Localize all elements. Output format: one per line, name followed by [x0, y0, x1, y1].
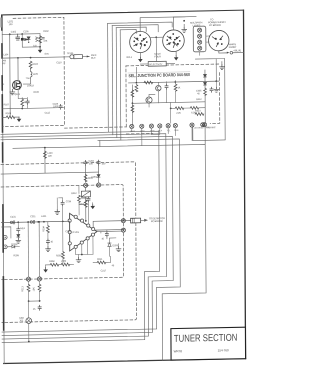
- dashed box FM front end (top-left): [2, 17, 64, 126]
- ground under C212: [47, 244, 49, 247]
- wire top link: [140, 17, 196, 32]
- wire staircase A: [1, 131, 160, 342]
- antenna coil stub at left edge: [0, 17, 2, 27]
- svg-text:WHT/RED: WHT/RED: [194, 127, 204, 129]
- ground under diode: [17, 237, 19, 238]
- svg-text:IC 201: IC 201: [72, 231, 79, 234]
- resistor R105: [21, 99, 24, 106]
- dashed box MPX outer (B): [1, 162, 136, 323]
- connector circle bottom 1: [26, 277, 30, 281]
- ground above IC: [92, 203, 94, 205]
- svg-text:2SK19: 2SK19: [27, 84, 34, 87]
- svg-text:C105: C105: [23, 30, 29, 33]
- svg-text:D201: D201: [92, 176, 98, 179]
- SELECTIVITY label box: [148, 61, 166, 66]
- wire R103: [3, 116, 19, 118]
- resistor L203: [44, 151, 47, 158]
- ground after R103: [17, 117, 22, 122]
- svg-text:6.2K: 6.2K: [191, 111, 196, 114]
- wire mid horizontal inside B: [1, 172, 99, 174]
- wire output 2 to xcirc: [97, 231, 122, 233]
- dashed box SEL junction top edge: [126, 64, 220, 66]
- wire vertical to bottom connector 1: [27, 222, 29, 277]
- connector row circle 2: [140, 124, 144, 128]
- svg-text:R208: R208: [49, 260, 55, 263]
- svg-text:GRN: GRN: [150, 130, 155, 132]
- svg-text:10K: 10K: [33, 287, 36, 292]
- wire SEL inner row: [129, 81, 220, 83]
- node dot: [183, 20, 185, 22]
- wire joining: [29, 300, 40, 302]
- diode D204 down: [17, 234, 20, 237]
- svg-text:C231: C231: [10, 215, 16, 218]
- capacitor C215 on output: [105, 232, 108, 237]
- svg-text:PC BOARD: PC BOARD: [151, 220, 163, 223]
- wire upper inside A: [78, 185, 80, 193]
- svg-text:2.2M: 2.2M: [61, 260, 66, 263]
- wire R204 down: [47, 222, 49, 240]
- capacitor C218: [38, 305, 41, 310]
- wire C216: [59, 198, 63, 222]
- ground left of C216: [55, 209, 60, 214]
- connector row circle 7: [190, 123, 194, 127]
- wire IC output right: [95, 229, 122, 232]
- connector labels row: [130, 127, 210, 133]
- resistor R104 vertical: [29, 61, 32, 68]
- svg-text:M13: M13: [20, 227, 25, 230]
- svg-text:R211: R211: [97, 258, 103, 261]
- resistor R202: [84, 200, 87, 207]
- wire bundle top 1: [108, 22, 173, 28]
- wire drops from connector row: [132, 128, 176, 146]
- resistor R412: [204, 88, 207, 95]
- title block box: [171, 327, 246, 360]
- wire bundle vertical 3: [115, 28, 118, 138]
- main wire left y222.6: [1, 221, 69, 222]
- wire jack row: [7, 246, 19, 248]
- svg-text:R213: R213: [21, 285, 24, 291]
- left edge connector jack J201: [3, 235, 7, 239]
- capacitor C402: [165, 84, 168, 89]
- zener D203: [108, 243, 111, 247]
- node dot: [39, 46, 41, 48]
- resistor R101 chevrons: [36, 37, 38, 42]
- diode D102 down: [27, 37, 30, 40]
- connector circle AM ANT: [202, 123, 206, 127]
- sheet border top: [2, 10, 244, 15]
- diode D402: [204, 82, 207, 85]
- capacitor C209 chain: [17, 227, 20, 232]
- transistor Q401: [146, 97, 152, 103]
- svg-text:R102: R102: [43, 30, 49, 33]
- coil L105: [31, 68, 32, 78]
- wire bundle top 4: [120, 29, 136, 33]
- dashed box IF-MPX inner (A): [1, 185, 124, 280]
- wire under-row collector: [132, 131, 160, 135]
- wire staircase B: [1, 134, 167, 339]
- wire bundle vertical 2: [111, 26, 114, 135]
- IC pin 10 left mid: [68, 231, 71, 234]
- transistor Q101 FET: [12, 81, 21, 90]
- svg-text:WR78: WR78: [174, 349, 183, 353]
- node dot: [21, 33, 23, 35]
- rotary switch S2: [163, 30, 185, 52]
- gnd drop right: [215, 81, 217, 87]
- wire gate to FET: [23, 78, 30, 84]
- svg-text:2.2K: 2.2K: [176, 112, 181, 115]
- svg-text:L104: L104: [3, 53, 9, 56]
- svg-text:RED: RED: [140, 131, 145, 133]
- solid box around SEL right: [192, 59, 225, 141]
- main wire y58: [2, 57, 64, 58]
- svg-text:S.5v: S.5v: [44, 53, 49, 56]
- IC pin 6: [86, 237, 89, 240]
- svg-text:45: 45: [33, 308, 36, 311]
- wire LED down to bus: [28, 323, 30, 341]
- wire IC pins bottom bus: [76, 253, 93, 255]
- svg-text:154-760: 154-760: [218, 348, 229, 352]
- trimmer capacitor C101: [16, 34, 20, 40]
- wire link drop to selectivity: [155, 37, 157, 61]
- wire C215: [106, 230, 108, 239]
- dashed box IF section (top-left 2) bottom edge: [65, 127, 127, 128]
- lamp box: [193, 26, 206, 52]
- connector row circle 8: [201, 123, 205, 127]
- SEL left components: resistor: [131, 105, 134, 112]
- svg-text:R412: R412: [196, 98, 202, 101]
- sheet border bottom: [4, 359, 246, 364]
- rotary S2 contact dots: [166, 33, 180, 45]
- capacitor C216 top: [61, 201, 64, 206]
- svg-text:ORG: ORG: [174, 130, 179, 132]
- wire SEL connector down leg: [204, 127, 206, 145]
- jack box: [1, 227, 11, 238]
- svg-text:R204: R204: [42, 226, 45, 232]
- svg-text:45: 45: [197, 92, 200, 95]
- wire below circle: [85, 187, 87, 221]
- node dot: [28, 42, 29, 43]
- resistor R103 horizontal: [6, 116, 15, 119]
- svg-text:C211: C211: [30, 215, 36, 218]
- resistor R209 horizontal: [61, 263, 70, 266]
- filter block FL201: [81, 191, 90, 197]
- connector circle bottom 2: [37, 277, 41, 281]
- node dot: [155, 36, 157, 38]
- svg-text:1K: 1K: [178, 86, 181, 89]
- svg-text:FOUR: FOUR: [154, 55, 161, 58]
- wire vertical to bottom connector 2: [38, 222, 40, 277]
- node dot: [30, 57, 32, 59]
- capacitor C405: [210, 87, 213, 92]
- wire staircase E: [13, 144, 207, 363]
- diode D101: [25, 38, 29, 41]
- svg-text:Q101: Q101: [14, 93, 20, 96]
- wire staircase D: [1, 139, 181, 332]
- svg-text:C217: C217: [101, 269, 107, 272]
- connector circle out B: [121, 228, 125, 232]
- wire TP101 to arrow: [64, 55, 89, 58]
- resistor R213: [27, 284, 30, 291]
- svg-text:45: 45: [112, 264, 115, 267]
- resistor R204 vertical: [46, 226, 49, 233]
- dashed box SEL junction bottom edge: [126, 132, 153, 135]
- node dot: [9, 33, 11, 35]
- wire xcirc A to feedthrough: [125, 220, 130, 222]
- wire left branch down: [9, 34, 11, 117]
- resistor 2.2K horizontal: [175, 107, 184, 110]
- node dot: [170, 107, 172, 109]
- node dots: [28, 300, 30, 302]
- svg-text:R107: R107: [4, 103, 10, 106]
- lamp PL2: [198, 34, 202, 38]
- dial drum hub: [215, 38, 223, 46]
- IC pin 1: [74, 215, 77, 218]
- ground below S2: [175, 51, 177, 55]
- node dot: [17, 57, 19, 59]
- capacitor C109 at right: [59, 104, 62, 109]
- wire source down: [18, 89, 27, 98]
- wire drop from circle 7: [191, 127, 193, 140]
- connector circle out A: [121, 219, 125, 223]
- ground at FET source: [12, 88, 14, 90]
- connector row circle 4: [158, 124, 162, 128]
- resistor R203 above IC: [78, 195, 81, 202]
- wire R203 to IC: [79, 202, 89, 224]
- connector row circle 3: [149, 124, 153, 128]
- svg-text:220: 220: [48, 155, 52, 158]
- svg-text:004-1: 004-1: [126, 56, 132, 59]
- arrow to detector: [141, 219, 148, 221]
- dashed box SEL junction left edge: [125, 66, 127, 127]
- rotary switch S1: [130, 31, 151, 53]
- resistor R214: [38, 284, 41, 291]
- svg-text:L105: L105: [33, 73, 39, 76]
- inline capacitor C208: [10, 221, 14, 224]
- ground below R102: [39, 47, 41, 48]
- resistor R404 inline: [144, 81, 153, 84]
- resistor R208 horizontal: [50, 263, 59, 266]
- dial drum M1: [209, 30, 230, 51]
- capacitor C205 on box B top: [97, 160, 100, 165]
- wire SEL left column: [131, 85, 133, 125]
- wire res row: [46, 263, 74, 266]
- lamp PL1: [197, 28, 201, 32]
- ground right area: [117, 244, 119, 247]
- ground right of S2: [183, 24, 185, 27]
- svg-text:C112: C112: [45, 112, 51, 115]
- svg-text:C216: C216: [66, 200, 72, 203]
- node dot: [81, 254, 83, 256]
- verticals into row: [136, 59, 216, 83]
- connector row circle 1: [130, 124, 134, 128]
- svg-text:L201: L201: [41, 215, 47, 218]
- svg-text:C102: C102: [11, 30, 17, 33]
- wire input top: [2, 33, 40, 36]
- wire bundle vertical 1: [107, 23, 110, 132]
- arrowhead FM IF OUT: [87, 55, 90, 57]
- transistor Q402 in SEL: [156, 85, 161, 91]
- wire drain up: [17, 58, 19, 81]
- inline capacitor C211: [30, 220, 34, 223]
- wire lamps to drum: [200, 36, 210, 55]
- wire resistor row: [171, 107, 206, 110]
- svg-text:45: 45: [101, 237, 104, 240]
- wire through selectivity box: [140, 62, 174, 65]
- wire C402: [166, 82, 168, 103]
- svg-text:R414: R414: [195, 109, 201, 112]
- diode D401: [203, 74, 206, 77]
- node dot on bus: [28, 341, 30, 343]
- resistor R201: [84, 174, 87, 181]
- connector row circle 6: [173, 123, 177, 127]
- IC pin 7: [80, 241, 83, 244]
- wire down to LED: [28, 301, 30, 317]
- capacitor C108: [26, 99, 29, 104]
- svg-text:47K: 47K: [43, 40, 47, 43]
- ground below S1: [139, 53, 141, 58]
- wire zener: [109, 238, 116, 256]
- resistor R210 horizontal lower: [97, 261, 106, 264]
- svg-text:R206: R206: [14, 254, 20, 257]
- IC pin 5: [91, 233, 94, 236]
- svg-text:TP101: TP101: [67, 52, 74, 55]
- svg-text:1000: 1000: [53, 105, 59, 108]
- wire chain: [17, 222, 19, 234]
- wire from C204 down: [85, 165, 87, 182]
- ground IC bottom: [78, 255, 80, 258]
- svg-text:C213: C213: [65, 230, 71, 233]
- IC pin 8: [74, 245, 77, 248]
- svg-text:45: 45: [50, 240, 53, 243]
- resistor 6.2K horizontal: [190, 106, 199, 109]
- svg-text:PC BOARD: PC BOARD: [209, 24, 221, 27]
- wire R105/C108 to lower: [22, 104, 27, 108]
- wire R210: [93, 256, 111, 262]
- wire from C205 down with diode: [98, 165, 100, 183]
- wire sub-box: [22, 34, 40, 47]
- IC pin 11 left bottom: [68, 242, 71, 245]
- svg-text:7.5v: 7.5v: [25, 77, 30, 80]
- IC pin 2: [80, 219, 83, 222]
- lamp PL3: [198, 40, 202, 44]
- wire R205: [62, 221, 64, 263]
- node dots: [136, 82, 138, 84]
- wire staircase C: [1, 136, 174, 335]
- wire between xcirc B and wire: [121, 229, 123, 231]
- dashed box SEL junction right edge: [210, 73, 220, 124]
- svg-text:R104: R104: [33, 63, 39, 66]
- node dot: [44, 147, 46, 149]
- rotary S1 contact dots: [133, 34, 147, 46]
- wire S1-S2 link: [151, 36, 163, 38]
- resistor R405 vertical: [174, 84, 177, 91]
- svg-text:RF: RF: [3, 62, 7, 65]
- wire lower y108.9: [3, 108, 64, 109]
- svg-text:100: 100: [101, 162, 105, 165]
- lamp PL4: [198, 46, 202, 50]
- resistor R205 vertical: [62, 252, 65, 259]
- wire R213/R214 to junction: [28, 281, 39, 302]
- connector row circle 5: [166, 124, 170, 128]
- resistor R402: [131, 90, 134, 97]
- sheet border left: [2, 15, 4, 364]
- op-amp IC201 triangle: [69, 213, 97, 251]
- resistor R403: [135, 85, 138, 92]
- capacitor C206 above IC: [87, 197, 90, 202]
- node dot: [132, 102, 134, 104]
- IC pin 4: [92, 227, 95, 230]
- wire bundle top 3: [116, 27, 146, 32]
- left edge connector jack J202: [3, 245, 7, 249]
- ground left of R208: [45, 265, 47, 268]
- connector 4 BLUE: [219, 51, 227, 53]
- feedthrough to detector: [131, 218, 141, 223]
- svg-text:WHT: WHT: [130, 131, 135, 133]
- node dots: [27, 221, 29, 223]
- wire r column to xcirc: [204, 95, 206, 123]
- wire sel row: [132, 102, 205, 103]
- IC pin 9 left top: [68, 219, 71, 222]
- capacitor C212: [46, 239, 49, 244]
- connector circle through box A top: [84, 183, 88, 187]
- ground top right in SEL: [221, 62, 223, 65]
- svg-text:BLK: BLK: [158, 130, 162, 132]
- wire IC output upper: [93, 221, 125, 228]
- resistor R414 horizontal: [195, 113, 204, 116]
- svg-text:OUT: OUT: [91, 57, 96, 60]
- capacitor C204 on box B top: [84, 160, 87, 165]
- IC pin 3: [87, 224, 90, 227]
- wire bundle vertical 4: [119, 30, 122, 140]
- wire bundle top 2: [112, 25, 158, 33]
- wire S2 top stub: [173, 17, 185, 30]
- connector circle on box A top x97.5: [97, 183, 101, 187]
- svg-text:4 BLUE: 4 BLUE: [233, 49, 241, 52]
- svg-text:SELECTIVITY: SELECTIVITY: [149, 64, 163, 66]
- wire R405: [175, 81, 177, 103]
- svg-text:C110: C110: [56, 61, 62, 64]
- svg-text:YEL: YEL: [167, 130, 172, 132]
- crystal filter X101 dark box: [21, 38, 24, 41]
- IC pin drop wires: [76, 236, 93, 254]
- svg-text:100: 100: [9, 23, 13, 26]
- wire Q402: [157, 82, 159, 103]
- test point TP101 jack: [70, 55, 74, 59]
- svg-text:R103: R103: [6, 112, 12, 115]
- capacitor C104: [42, 37, 45, 39]
- wire branch x44: [44, 148, 46, 174]
- svg-text:R205: R205: [56, 254, 62, 257]
- svg-text:GRY: GRY: [205, 127, 210, 129]
- svg-text:R212: R212: [71, 192, 77, 195]
- sheet border right: [243, 10, 245, 359]
- svg-text:TUNER SECTION: TUNER SECTION: [174, 333, 238, 345]
- svg-text:R203: R203: [81, 197, 87, 200]
- diode D201: [97, 175, 100, 178]
- svg-text:D203: D203: [112, 244, 118, 247]
- wire SEL right column: [204, 70, 206, 88]
- node dot: [21, 108, 23, 110]
- wire drop from circle 8 to staircase D: [203, 123, 205, 126]
- diode D202 inline: [12, 245, 15, 248]
- wire drop: [170, 103, 172, 124]
- svg-text:R106: R106: [34, 91, 40, 94]
- svg-text:702: 702: [19, 319, 23, 322]
- svg-text:TP: TP: [1, 83, 4, 86]
- wire jog L4-L5: [99, 141, 101, 147]
- resistor R102: [39, 36, 42, 43]
- wire Q401: [149, 94, 155, 107]
